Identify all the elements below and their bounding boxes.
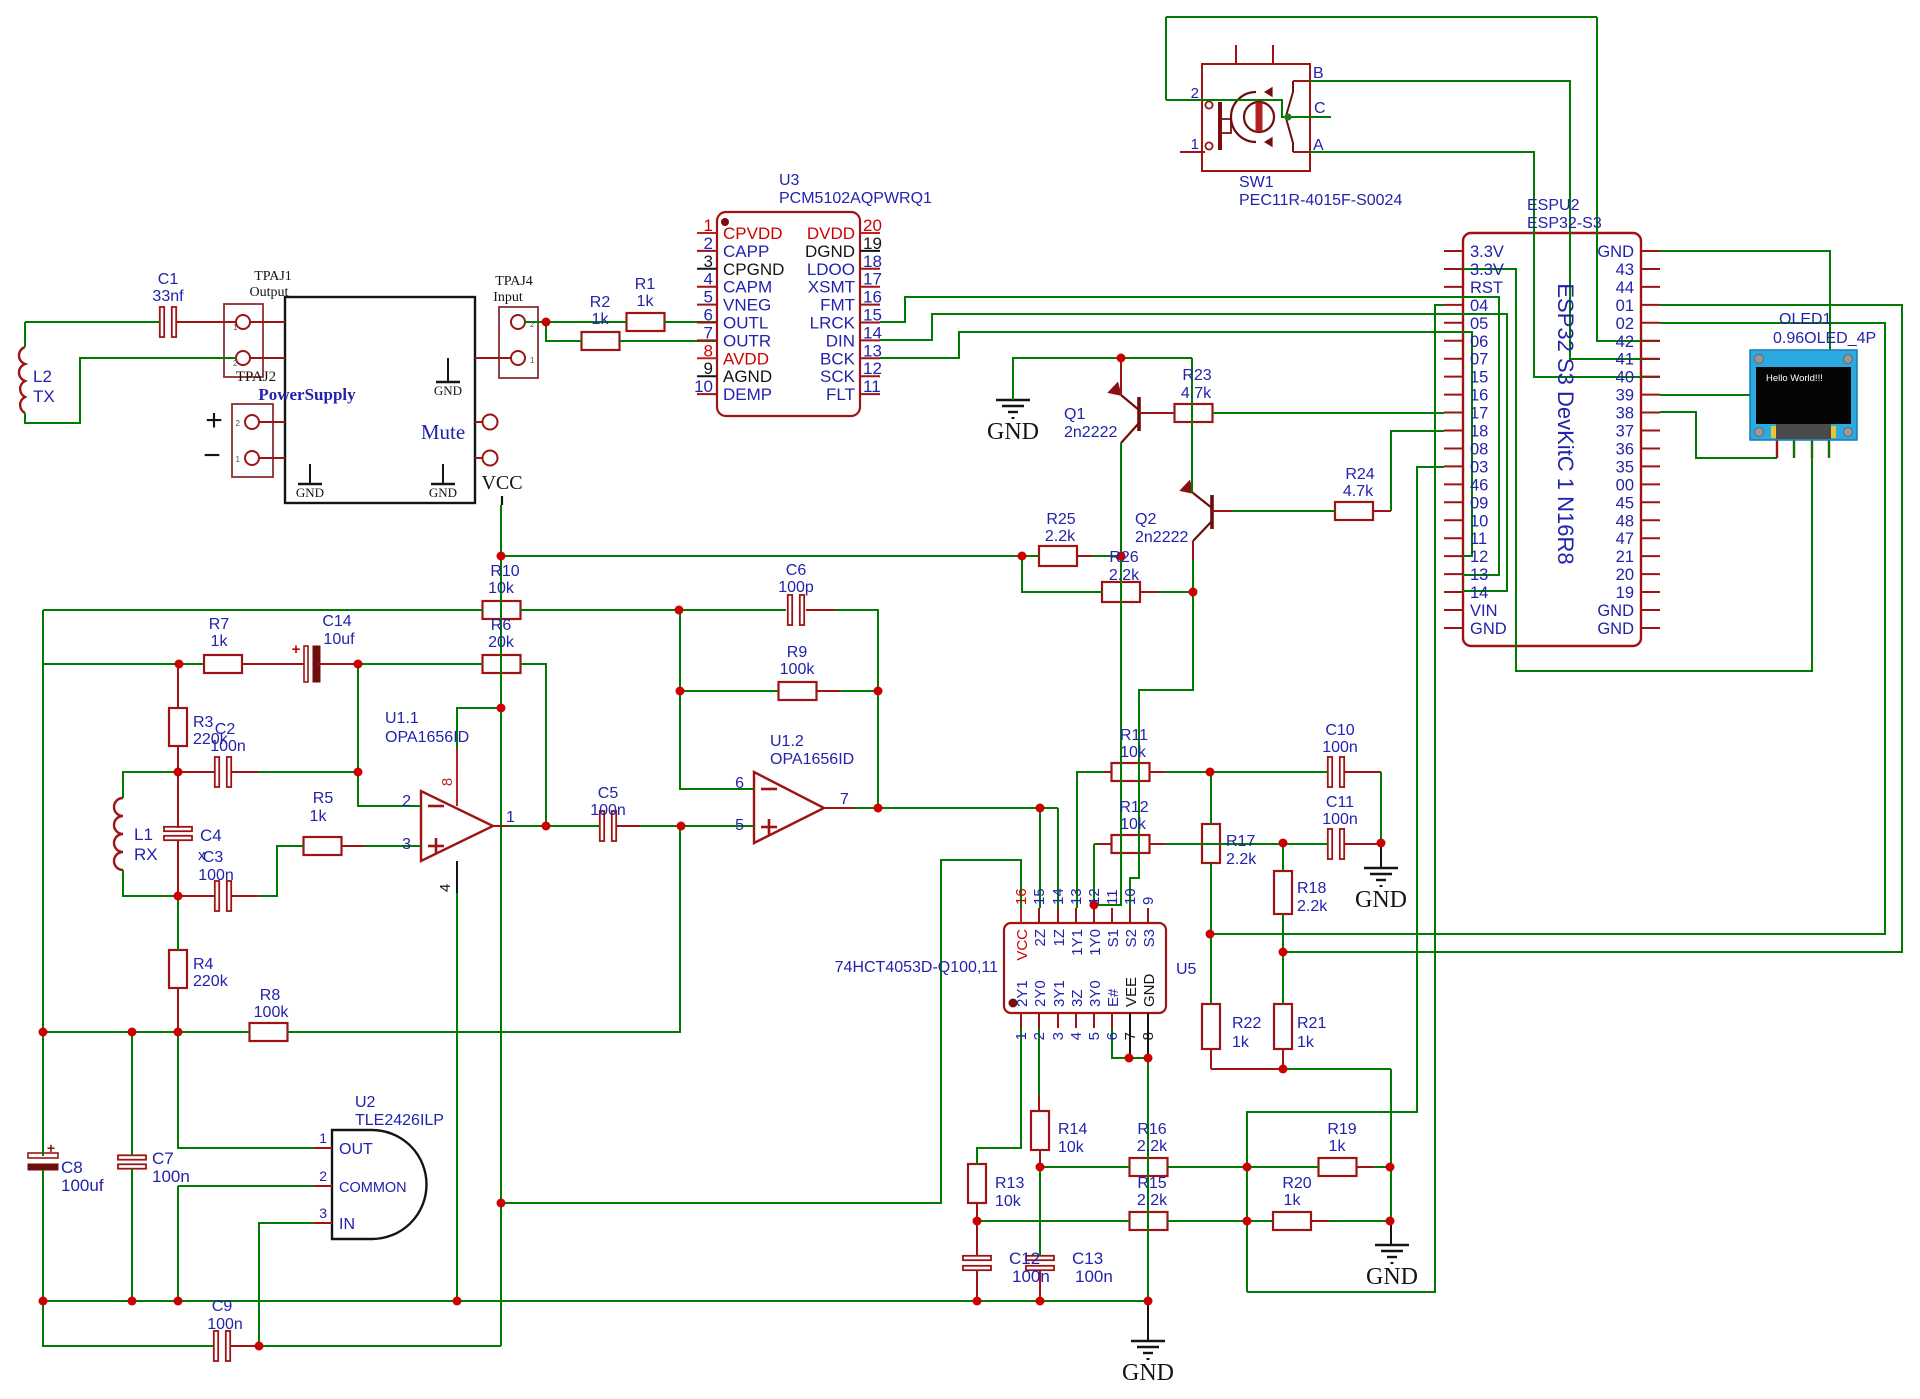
svg-text:2: 2 bbox=[704, 234, 713, 253]
svg-text:GND: GND bbox=[1597, 620, 1634, 638]
svg-text:VNEG: VNEG bbox=[723, 296, 771, 315]
svg-text:2: 2 bbox=[402, 793, 411, 810]
svg-text:2.2k: 2.2k bbox=[1297, 898, 1328, 915]
svg-text:C5: C5 bbox=[598, 785, 619, 802]
svg-text:R13: R13 bbox=[995, 1175, 1024, 1192]
svg-text:2.2k: 2.2k bbox=[1137, 1192, 1168, 1209]
svg-text:38: 38 bbox=[1616, 405, 1634, 423]
svg-text:GND: GND bbox=[1366, 1264, 1418, 1290]
svg-text:E#: E# bbox=[1105, 988, 1122, 1007]
svg-text:36: 36 bbox=[1616, 440, 1634, 458]
svg-text:U5: U5 bbox=[1176, 961, 1197, 978]
svg-text:GND: GND bbox=[1597, 243, 1634, 261]
svg-text:R15: R15 bbox=[1137, 1175, 1166, 1192]
svg-text:3: 3 bbox=[319, 1205, 327, 1221]
svg-text:R1: R1 bbox=[635, 276, 656, 293]
svg-text:100n: 100n bbox=[1012, 1267, 1050, 1286]
svg-text:GND: GND bbox=[1470, 620, 1507, 638]
svg-text:11: 11 bbox=[863, 377, 881, 396]
svg-text:1: 1 bbox=[236, 455, 241, 464]
svg-text:2.2k: 2.2k bbox=[1109, 567, 1140, 584]
svg-text:S2: S2 bbox=[1123, 929, 1140, 947]
svg-text:U1.1: U1.1 bbox=[385, 710, 419, 727]
svg-text:R14: R14 bbox=[1058, 1121, 1087, 1138]
svg-text:Hello World!!!: Hello World!!! bbox=[1766, 373, 1823, 384]
svg-text:7: 7 bbox=[1122, 1032, 1139, 1040]
svg-text:R21: R21 bbox=[1297, 1015, 1326, 1032]
svg-text:R12: R12 bbox=[1119, 799, 1148, 816]
svg-text:6: 6 bbox=[704, 306, 713, 325]
svg-text:L1: L1 bbox=[134, 825, 153, 844]
svg-text:05: 05 bbox=[1470, 315, 1488, 333]
svg-text:VCC: VCC bbox=[481, 472, 522, 494]
svg-text:2n2222: 2n2222 bbox=[1135, 529, 1188, 546]
svg-text:ESP32 S3 DevKitC 1 N16R8: ESP32 S3 DevKitC 1 N16R8 bbox=[1553, 283, 1578, 564]
svg-text:R3: R3 bbox=[193, 714, 214, 731]
svg-text:+: + bbox=[205, 404, 223, 437]
svg-text:1k: 1k bbox=[1297, 1034, 1315, 1051]
svg-text:C7: C7 bbox=[152, 1149, 174, 1168]
svg-text:Q2: Q2 bbox=[1135, 511, 1156, 528]
svg-text:−: − bbox=[203, 439, 221, 472]
svg-text:DEMP: DEMP bbox=[723, 385, 772, 404]
svg-text:1: 1 bbox=[704, 216, 713, 235]
svg-text:1: 1 bbox=[233, 323, 238, 332]
svg-text:C6: C6 bbox=[786, 562, 807, 579]
svg-text:FMT: FMT bbox=[820, 296, 855, 315]
svg-text:03: 03 bbox=[1470, 458, 1488, 476]
svg-text:U3: U3 bbox=[779, 172, 800, 189]
svg-text:2.2k: 2.2k bbox=[1226, 851, 1257, 868]
svg-text:R8: R8 bbox=[260, 987, 281, 1004]
svg-text:100n: 100n bbox=[1322, 739, 1358, 756]
svg-text:16: 16 bbox=[1013, 888, 1030, 905]
svg-text:2.2k: 2.2k bbox=[1045, 528, 1076, 545]
svg-text:1k: 1k bbox=[310, 808, 328, 825]
svg-text:R7: R7 bbox=[209, 616, 230, 633]
svg-text:10uf: 10uf bbox=[323, 631, 355, 648]
svg-text:OUT: OUT bbox=[339, 1141, 373, 1158]
svg-text:OPA1656ID: OPA1656ID bbox=[770, 751, 854, 768]
svg-text:12: 12 bbox=[1470, 548, 1488, 566]
svg-text:R11: R11 bbox=[1120, 727, 1148, 744]
svg-text:15: 15 bbox=[863, 306, 882, 325]
svg-text:GND: GND bbox=[296, 485, 324, 500]
svg-text:2: 2 bbox=[236, 419, 241, 428]
svg-text:16: 16 bbox=[1470, 387, 1488, 405]
svg-text:+: + bbox=[47, 1140, 55, 1156]
svg-text:CPGND: CPGND bbox=[723, 260, 784, 279]
svg-text:2Z: 2Z bbox=[1032, 929, 1049, 947]
svg-text:TPAJ4: TPAJ4 bbox=[495, 274, 533, 289]
svg-text:39: 39 bbox=[1616, 387, 1634, 405]
svg-text:47: 47 bbox=[1616, 530, 1634, 548]
svg-text:13: 13 bbox=[1068, 888, 1085, 905]
svg-text:1k: 1k bbox=[592, 311, 610, 328]
svg-text:1k: 1k bbox=[1284, 1192, 1302, 1209]
svg-text:7: 7 bbox=[704, 323, 713, 342]
svg-text:VIN: VIN bbox=[1470, 602, 1498, 620]
svg-text:Q1: Q1 bbox=[1064, 406, 1085, 423]
svg-text:R4: R4 bbox=[193, 956, 214, 973]
svg-text:48: 48 bbox=[1616, 512, 1634, 530]
svg-text:1: 1 bbox=[530, 356, 535, 365]
svg-text:14: 14 bbox=[1470, 584, 1488, 602]
svg-text:01: 01 bbox=[1616, 297, 1634, 315]
svg-text:15: 15 bbox=[1470, 369, 1488, 387]
svg-text:GND: GND bbox=[429, 485, 457, 500]
svg-text:100n: 100n bbox=[207, 1316, 243, 1333]
svg-text:07: 07 bbox=[1470, 351, 1488, 369]
svg-text:6: 6 bbox=[1104, 1032, 1121, 1040]
svg-text:RX: RX bbox=[134, 845, 158, 864]
svg-text:A: A bbox=[1313, 137, 1324, 154]
svg-text:41: 41 bbox=[1616, 351, 1634, 369]
svg-text:CAPM: CAPM bbox=[723, 278, 772, 297]
svg-text:40: 40 bbox=[1616, 369, 1634, 387]
svg-text:BCK: BCK bbox=[820, 349, 856, 368]
svg-text:C1: C1 bbox=[158, 271, 179, 288]
svg-text:10k: 10k bbox=[995, 1193, 1022, 1210]
svg-text:C8: C8 bbox=[61, 1158, 83, 1177]
svg-text:11: 11 bbox=[1104, 889, 1121, 905]
svg-text:9: 9 bbox=[1140, 897, 1157, 905]
svg-text:DVDD: DVDD bbox=[807, 224, 855, 243]
svg-text:15: 15 bbox=[1031, 888, 1048, 905]
svg-text:3Y0: 3Y0 bbox=[1087, 980, 1104, 1007]
svg-text:19: 19 bbox=[863, 234, 882, 253]
svg-text:1: 1 bbox=[1191, 136, 1199, 153]
svg-text:R20: R20 bbox=[1282, 1175, 1311, 1192]
svg-text:14: 14 bbox=[863, 323, 882, 342]
svg-text:4: 4 bbox=[704, 270, 713, 289]
svg-text:GND: GND bbox=[1597, 602, 1634, 620]
svg-text:1: 1 bbox=[319, 1130, 327, 1146]
svg-text:220k: 220k bbox=[193, 973, 229, 990]
svg-text:XSMT: XSMT bbox=[808, 278, 855, 297]
svg-text:C3: C3 bbox=[203, 849, 224, 866]
svg-text:1Z: 1Z bbox=[1051, 929, 1068, 947]
svg-text:10k: 10k bbox=[1058, 1139, 1085, 1156]
svg-text:2: 2 bbox=[530, 320, 535, 329]
svg-text:3: 3 bbox=[704, 252, 713, 271]
svg-text:33nf: 33nf bbox=[152, 288, 184, 305]
svg-text:74HCT4053D-Q100,11: 74HCT4053D-Q100,11 bbox=[835, 959, 998, 976]
svg-text:GND: GND bbox=[1355, 887, 1407, 913]
svg-text:OUTL: OUTL bbox=[723, 314, 768, 333]
svg-text:1: 1 bbox=[506, 809, 515, 826]
svg-text:IN: IN bbox=[339, 1216, 355, 1233]
svg-text:S3: S3 bbox=[1141, 929, 1158, 947]
svg-text:LDOO: LDOO bbox=[807, 260, 855, 279]
svg-text:10k: 10k bbox=[488, 580, 515, 597]
svg-text:Mute: Mute bbox=[421, 420, 465, 444]
svg-text:46: 46 bbox=[1470, 476, 1488, 494]
svg-text:04: 04 bbox=[1470, 297, 1488, 315]
svg-text:10k: 10k bbox=[1120, 744, 1147, 761]
svg-text:2: 2 bbox=[233, 359, 238, 368]
svg-text:SCK: SCK bbox=[820, 367, 856, 386]
svg-text:100n: 100n bbox=[210, 738, 246, 755]
svg-text:CAPP: CAPP bbox=[723, 242, 769, 261]
svg-text:43: 43 bbox=[1616, 261, 1634, 279]
svg-text:R17: R17 bbox=[1226, 833, 1255, 850]
svg-text:R22: R22 bbox=[1232, 1015, 1261, 1032]
svg-text:9: 9 bbox=[704, 359, 713, 378]
svg-text:21: 21 bbox=[1616, 548, 1634, 566]
svg-text:3.3V: 3.3V bbox=[1470, 243, 1504, 261]
svg-text:08: 08 bbox=[1470, 440, 1488, 458]
svg-text:OUTR: OUTR bbox=[723, 331, 771, 350]
svg-text:2Y1: 2Y1 bbox=[1014, 980, 1031, 1007]
svg-text:2: 2 bbox=[319, 1168, 327, 1184]
svg-text:16: 16 bbox=[863, 288, 882, 307]
svg-text:R23: R23 bbox=[1182, 367, 1211, 384]
svg-text:C14: C14 bbox=[322, 613, 351, 630]
svg-text:100n: 100n bbox=[1322, 811, 1358, 828]
svg-text:00: 00 bbox=[1616, 476, 1634, 494]
svg-text:100n: 100n bbox=[1075, 1267, 1113, 1286]
svg-text:TX: TX bbox=[33, 387, 55, 406]
svg-text:1Y1: 1Y1 bbox=[1069, 929, 1086, 956]
svg-text:10: 10 bbox=[1122, 888, 1139, 905]
svg-text:AGND: AGND bbox=[723, 367, 772, 386]
svg-text:C11: C11 bbox=[1326, 794, 1354, 811]
svg-text:C9: C9 bbox=[212, 1298, 233, 1315]
svg-text:RST: RST bbox=[1470, 279, 1503, 297]
svg-text:R2: R2 bbox=[590, 294, 611, 311]
svg-text:11: 11 bbox=[1470, 530, 1487, 548]
svg-text:8: 8 bbox=[1140, 1032, 1157, 1040]
svg-text:B: B bbox=[1313, 65, 1324, 82]
svg-text:R18: R18 bbox=[1297, 880, 1326, 897]
svg-text:VCC: VCC bbox=[1014, 929, 1031, 961]
svg-text:TPAJ1: TPAJ1 bbox=[254, 269, 292, 284]
svg-text:PEC11R-4015F-S0024: PEC11R-4015F-S0024 bbox=[1239, 192, 1402, 209]
svg-text:18: 18 bbox=[1470, 423, 1488, 441]
svg-text:4.7k: 4.7k bbox=[1343, 483, 1374, 500]
svg-text:35: 35 bbox=[1616, 458, 1634, 476]
svg-text:100n: 100n bbox=[590, 802, 626, 819]
svg-text:3Z: 3Z bbox=[1069, 989, 1086, 1007]
svg-text:13: 13 bbox=[863, 341, 882, 360]
svg-text:C2: C2 bbox=[215, 721, 236, 738]
svg-text:12: 12 bbox=[863, 359, 882, 378]
svg-text:12: 12 bbox=[1086, 888, 1103, 905]
svg-text:S1: S1 bbox=[1105, 929, 1122, 947]
svg-text:17: 17 bbox=[863, 270, 882, 289]
svg-text:R5: R5 bbox=[313, 790, 334, 807]
svg-text:20: 20 bbox=[863, 216, 882, 235]
svg-text:45: 45 bbox=[1616, 494, 1634, 512]
svg-text:7: 7 bbox=[840, 791, 849, 808]
svg-text:Output: Output bbox=[250, 285, 289, 300]
svg-text:100k: 100k bbox=[780, 661, 816, 678]
svg-text:R10: R10 bbox=[490, 563, 519, 580]
svg-text:18: 18 bbox=[863, 252, 882, 271]
svg-text:1Y0: 1Y0 bbox=[1087, 929, 1104, 956]
svg-text:C10: C10 bbox=[1325, 722, 1354, 739]
svg-text:100uf: 100uf bbox=[61, 1176, 104, 1195]
svg-text:TPAJ2: TPAJ2 bbox=[236, 369, 276, 385]
svg-text:R6: R6 bbox=[491, 617, 512, 634]
svg-text:PCM5102AQPWRQ1: PCM5102AQPWRQ1 bbox=[779, 190, 932, 207]
svg-text:14: 14 bbox=[1050, 888, 1067, 905]
svg-text:09: 09 bbox=[1470, 494, 1488, 512]
svg-text:6: 6 bbox=[735, 775, 744, 792]
svg-text:+: + bbox=[292, 641, 301, 658]
svg-text:17: 17 bbox=[1470, 405, 1488, 423]
svg-text:1k: 1k bbox=[637, 293, 655, 310]
svg-text:R19: R19 bbox=[1327, 1121, 1356, 1138]
svg-text:13: 13 bbox=[1470, 566, 1488, 584]
svg-text:5: 5 bbox=[735, 817, 744, 834]
svg-text:100n: 100n bbox=[152, 1167, 190, 1186]
svg-text:VEE: VEE bbox=[1123, 977, 1140, 1007]
svg-text:R26: R26 bbox=[1109, 549, 1138, 566]
svg-text:2: 2 bbox=[1031, 1032, 1048, 1040]
svg-text:SW1: SW1 bbox=[1239, 174, 1274, 191]
svg-text:19: 19 bbox=[1616, 584, 1634, 602]
svg-text:44: 44 bbox=[1616, 279, 1634, 297]
svg-text:10k: 10k bbox=[1120, 816, 1147, 833]
svg-text:DIN: DIN bbox=[826, 331, 855, 350]
svg-text:37: 37 bbox=[1616, 423, 1634, 441]
svg-text:3: 3 bbox=[1050, 1032, 1067, 1040]
svg-text:2Y0: 2Y0 bbox=[1032, 980, 1049, 1007]
svg-text:2.2k: 2.2k bbox=[1137, 1138, 1168, 1155]
svg-text:8: 8 bbox=[704, 341, 713, 360]
svg-text:TLE2426ILP: TLE2426ILP bbox=[355, 1112, 444, 1129]
svg-text:100p: 100p bbox=[778, 579, 814, 596]
svg-text:06: 06 bbox=[1470, 333, 1488, 351]
svg-text:AVDD: AVDD bbox=[723, 349, 769, 368]
svg-text:U1.2: U1.2 bbox=[770, 733, 804, 750]
svg-text:R16: R16 bbox=[1137, 1121, 1166, 1138]
svg-text:100k: 100k bbox=[254, 1004, 290, 1021]
svg-text:1: 1 bbox=[1013, 1032, 1030, 1040]
svg-text:Input: Input bbox=[493, 290, 523, 305]
svg-text:4.7k: 4.7k bbox=[1181, 385, 1212, 402]
svg-text:ESPU2: ESPU2 bbox=[1527, 197, 1580, 214]
svg-text:1k: 1k bbox=[211, 633, 229, 650]
svg-text:OLED1: OLED1 bbox=[1779, 311, 1832, 328]
svg-text:C: C bbox=[1314, 100, 1326, 117]
svg-text:GND: GND bbox=[434, 383, 462, 398]
svg-text:COMMON: COMMON bbox=[339, 1180, 407, 1196]
svg-text:4: 4 bbox=[437, 884, 454, 892]
svg-text:0.96OLED_4P: 0.96OLED_4P bbox=[1773, 330, 1876, 347]
svg-text:02: 02 bbox=[1616, 315, 1634, 333]
svg-text:R24: R24 bbox=[1345, 466, 1374, 483]
svg-text:42: 42 bbox=[1616, 333, 1634, 351]
svg-text:GND: GND bbox=[1141, 974, 1158, 1008]
svg-text:L2: L2 bbox=[33, 367, 52, 386]
svg-text:ESP32-S3: ESP32-S3 bbox=[1527, 215, 1602, 232]
svg-text:GND: GND bbox=[1122, 1360, 1174, 1386]
svg-text:3Y1: 3Y1 bbox=[1051, 980, 1068, 1007]
svg-text:GND: GND bbox=[987, 419, 1039, 445]
svg-text:3: 3 bbox=[402, 836, 411, 853]
svg-text:2: 2 bbox=[1191, 85, 1199, 102]
svg-text:R25: R25 bbox=[1046, 511, 1075, 528]
svg-text:10: 10 bbox=[1470, 512, 1488, 530]
svg-text:FLT: FLT bbox=[826, 385, 855, 404]
svg-text:DGND: DGND bbox=[805, 242, 855, 261]
svg-text:C13: C13 bbox=[1072, 1249, 1103, 1268]
svg-text:C4: C4 bbox=[200, 826, 222, 845]
svg-text:1k: 1k bbox=[1232, 1034, 1250, 1051]
svg-text:20k: 20k bbox=[488, 634, 515, 651]
svg-text:8: 8 bbox=[439, 778, 456, 786]
svg-text:5: 5 bbox=[1086, 1032, 1103, 1040]
svg-text:OPA1656ID: OPA1656ID bbox=[385, 729, 469, 746]
svg-text:U2: U2 bbox=[355, 1094, 376, 1111]
svg-text:10: 10 bbox=[694, 377, 713, 396]
svg-text:2n2222: 2n2222 bbox=[1064, 424, 1117, 441]
svg-text:3.3V: 3.3V bbox=[1470, 261, 1504, 279]
svg-text:CPVDD: CPVDD bbox=[723, 224, 783, 243]
svg-text:C12: C12 bbox=[1009, 1249, 1040, 1268]
svg-text:20: 20 bbox=[1616, 566, 1634, 584]
svg-text:1k: 1k bbox=[1329, 1138, 1347, 1155]
svg-text:R9: R9 bbox=[787, 644, 808, 661]
svg-text:5: 5 bbox=[704, 288, 713, 307]
svg-text:100n: 100n bbox=[198, 867, 234, 884]
svg-text:LRCK: LRCK bbox=[810, 314, 856, 333]
svg-text:PowerSupply: PowerSupply bbox=[258, 385, 356, 404]
svg-text:4: 4 bbox=[1068, 1032, 1085, 1040]
